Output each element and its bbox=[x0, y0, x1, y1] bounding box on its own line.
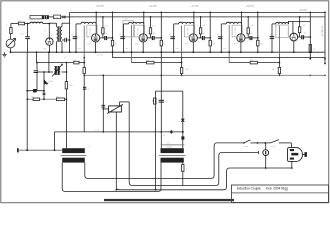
svg-text:to spkr fld: to spkr fld bbox=[321, 26, 324, 37]
svg-text:1T4: 1T4 bbox=[135, 44, 138, 46]
svg-text:L5: L5 bbox=[89, 146, 91, 148]
svg-text:osc: osc bbox=[126, 48, 129, 50]
svg-text:1T4: 1T4 bbox=[185, 44, 188, 46]
svg-text:avc bus: avc bus bbox=[97, 54, 103, 56]
svg-text:1M: 1M bbox=[272, 69, 275, 71]
svg-text:100K: 100K bbox=[69, 85, 74, 87]
svg-text:p-p: p-p bbox=[163, 134, 166, 136]
svg-text:1R5 pen: 1R5 pen bbox=[88, 28, 90, 36]
svg-text:osc: osc bbox=[223, 48, 226, 50]
svg-text:+B 90V: +B 90V bbox=[96, 5, 104, 8]
svg-text:.01: .01 bbox=[250, 33, 253, 35]
svg-text:osc: osc bbox=[176, 48, 179, 50]
svg-text:1R5 pen: 1R5 pen bbox=[186, 28, 188, 36]
svg-text:+B 45V: +B 45V bbox=[299, 9, 307, 12]
svg-text:T1: T1 bbox=[54, 24, 56, 26]
svg-text:1N34: 1N34 bbox=[49, 81, 54, 83]
svg-text:.01: .01 bbox=[304, 32, 307, 34]
svg-text:1R5 pen: 1R5 pen bbox=[136, 28, 138, 36]
svg-text:.1: .1 bbox=[63, 47, 65, 49]
svg-text:L6: L6 bbox=[167, 142, 169, 144]
svg-text:1M: 1M bbox=[186, 69, 189, 71]
svg-text:to ant: to ant bbox=[95, 128, 100, 131]
svg-text:250: 250 bbox=[31, 96, 34, 98]
svg-text:+B 90V: +B 90V bbox=[149, 5, 157, 8]
svg-text:.05: .05 bbox=[71, 34, 74, 36]
svg-text:1T4: 1T4 bbox=[87, 44, 90, 46]
svg-text:on-off: on-off bbox=[244, 146, 249, 148]
svg-text:2M: 2M bbox=[162, 44, 165, 46]
svg-text:.01: .01 bbox=[152, 33, 155, 35]
svg-text:on-off: on-off bbox=[271, 146, 276, 148]
svg-text:.05: .05 bbox=[119, 34, 122, 36]
svg-text:.01: .01 bbox=[203, 33, 206, 35]
svg-text:osc: osc bbox=[78, 48, 81, 50]
svg-text:365: 365 bbox=[21, 34, 24, 36]
svg-text:.05: .05 bbox=[169, 34, 172, 36]
svg-text:1R5 pen: 1R5 pen bbox=[234, 28, 236, 36]
svg-text:coupler: coupler bbox=[166, 147, 172, 149]
svg-text:4: 4 bbox=[186, 169, 187, 171]
svg-text:2M: 2M bbox=[260, 44, 263, 46]
svg-text:1T4: 1T4 bbox=[232, 44, 235, 46]
svg-text:.1: .1 bbox=[88, 89, 90, 91]
svg-text:2M: 2M bbox=[212, 44, 215, 46]
svg-text:Feb. 2004 Rigg: Feb. 2004 Rigg bbox=[266, 186, 288, 190]
svg-text:.05: .05 bbox=[216, 34, 219, 36]
svg-text:+B 90V: +B 90V bbox=[191, 5, 199, 8]
svg-text:.01: .01 bbox=[105, 33, 108, 35]
svg-text:250: 250 bbox=[56, 96, 59, 98]
svg-text:1R5 pen: 1R5 pen bbox=[287, 28, 289, 36]
svg-text:Induction Couple: Induction Couple bbox=[237, 186, 261, 190]
svg-text:2M: 2M bbox=[115, 44, 118, 46]
svg-text:+B 90V: +B 90V bbox=[246, 5, 254, 8]
svg-text:.05: .05 bbox=[269, 34, 272, 36]
